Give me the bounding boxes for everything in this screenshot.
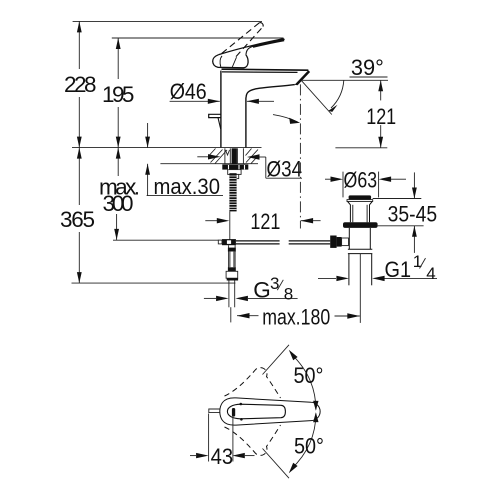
svg-text:50°: 50° xyxy=(294,363,324,388)
svg-text:195: 195 xyxy=(102,82,135,107)
svg-text:max.180: max.180 xyxy=(262,304,330,329)
svg-text:43: 43 xyxy=(211,444,234,469)
svg-text:4: 4 xyxy=(426,264,435,283)
svg-text:228: 228 xyxy=(64,72,97,97)
svg-text:121: 121 xyxy=(366,104,396,129)
svg-text:121: 121 xyxy=(250,209,280,234)
svg-text:8: 8 xyxy=(284,285,293,304)
svg-text:39°: 39° xyxy=(351,55,384,80)
svg-text:1: 1 xyxy=(413,252,422,271)
svg-text:max.30: max.30 xyxy=(154,174,221,199)
svg-text:G: G xyxy=(253,278,271,303)
svg-text:300: 300 xyxy=(103,191,134,216)
svg-text:3: 3 xyxy=(270,274,279,293)
svg-text:Ø34: Ø34 xyxy=(267,156,303,181)
svg-text:365: 365 xyxy=(60,207,95,232)
svg-text:G1: G1 xyxy=(385,257,412,282)
svg-text:Ø63: Ø63 xyxy=(344,167,378,192)
svg-text:50°: 50° xyxy=(294,433,324,458)
svg-text:35-45: 35-45 xyxy=(388,201,438,226)
svg-text:Ø46: Ø46 xyxy=(170,79,207,104)
